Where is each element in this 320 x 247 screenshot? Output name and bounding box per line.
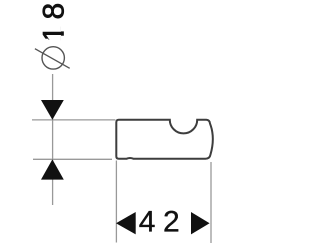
arrow right (42 dim) [191, 212, 210, 234]
diameter symbol slash [35, 49, 70, 69]
svg-text:42: 42 [139, 205, 187, 238]
extension line top (from hook top edge, left) [32, 119, 115, 121]
arrow up (bottom of vertical dim) [41, 159, 64, 179]
mask: shorten flag of rotated 1 [40, 39, 49, 43]
arrow left (42 dim) [116, 212, 136, 234]
diameter symbol circle [42, 47, 64, 69]
hook outline (side view) [116, 120, 213, 159]
mask: trim foot serif of rotated 1 (below stem) [61, 36, 67, 42]
arrow down (top of vertical dim) [41, 100, 64, 120]
extension line left (42 dim) [115, 161, 117, 243]
extension line right (42 dim) [210, 162, 212, 243]
dimension line vertical (diameter 18) [52, 74, 54, 205]
extension line bottom (from hook bottom edge, left) [33, 158, 112, 160]
mask: trim foot serif of rotated 1 (above stem) [61, 25, 67, 32]
